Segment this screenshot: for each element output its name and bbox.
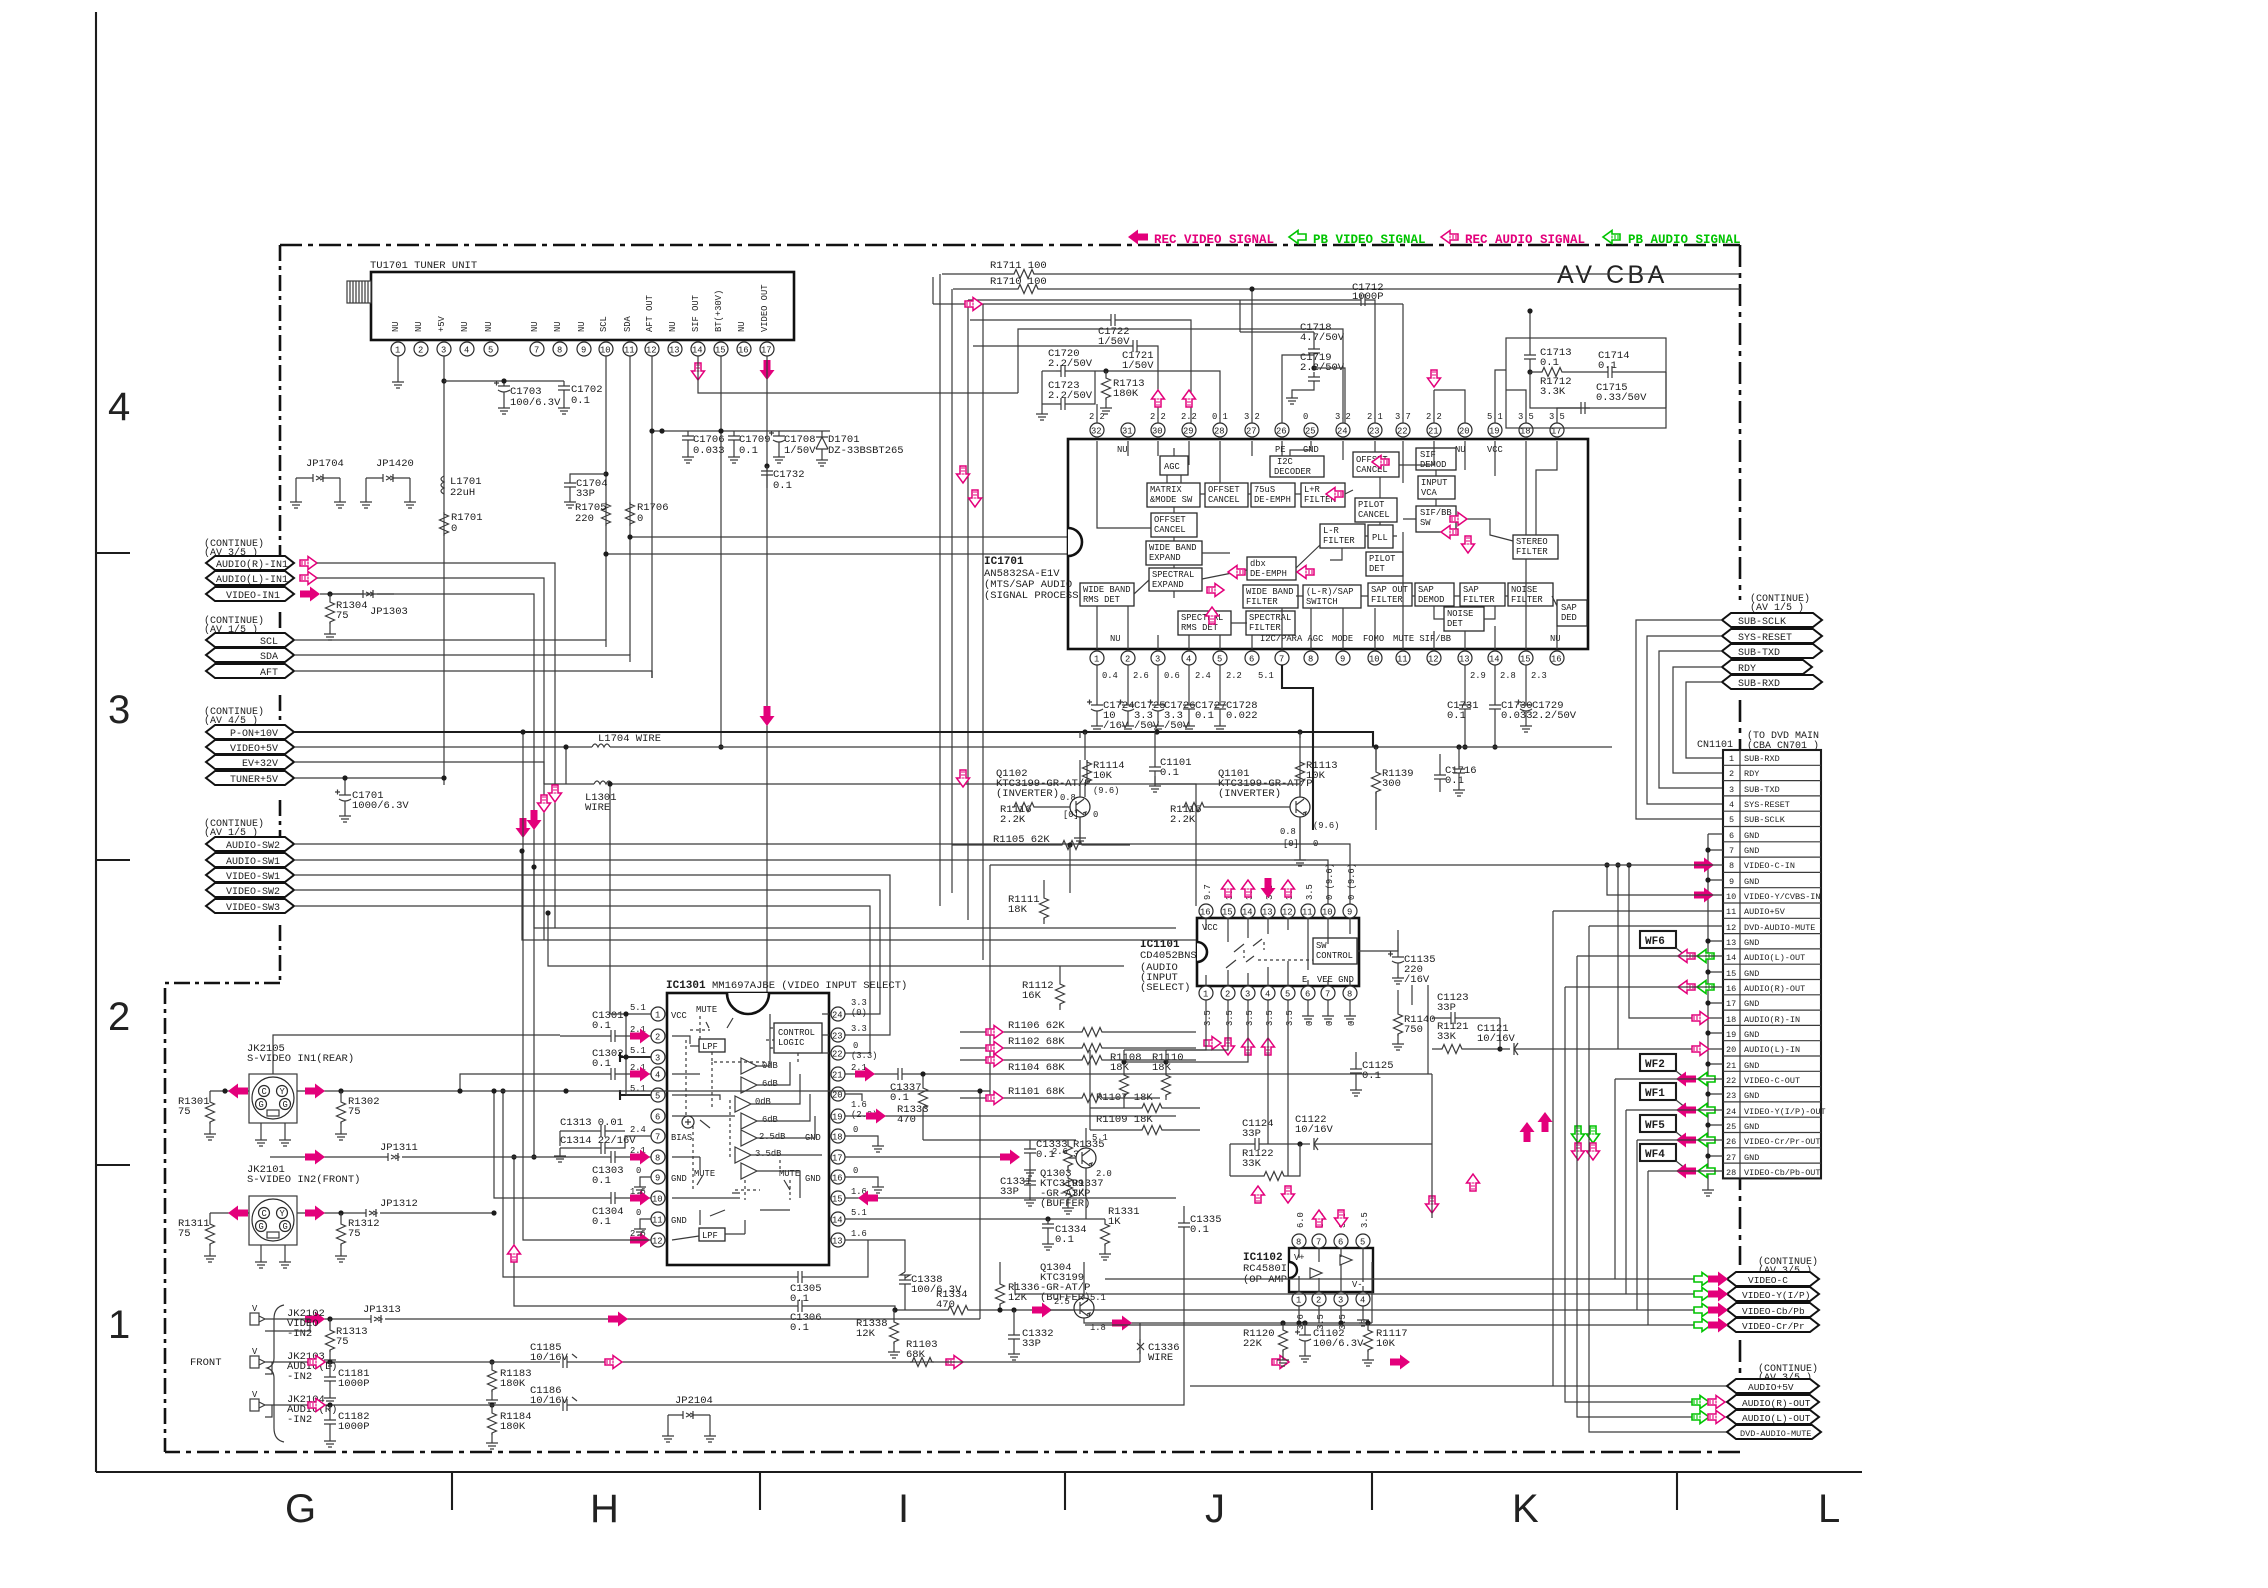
svg-text:28: 28 <box>1214 427 1225 437</box>
svg-text:SCL: SCL <box>599 316 609 332</box>
svg-text:AUDIO-SW2: AUDIO-SW2 <box>226 841 280 852</box>
svg-text:22: 22 <box>1397 427 1408 437</box>
wire row18 feed <box>1629 865 1723 1018</box>
capacitor C1701 <box>344 778 346 790</box>
svg-text:WIDE BAND: WIDE BAND <box>1149 543 1197 553</box>
wire row22 video-c-out <box>1105 1079 1727 1279</box>
arrows above IC1101 <box>1222 880 1235 897</box>
wire P-ON+10V <box>294 732 1373 747</box>
svg-text:2.9: 2.9 <box>1470 671 1486 681</box>
svg-text:9: 9 <box>655 1174 660 1184</box>
arrows row14 <box>1678 950 1695 963</box>
svg-text:GND: GND <box>1744 999 1759 1009</box>
svg-text:15: 15 <box>1222 908 1233 918</box>
svg-text:0.1: 0.1 <box>739 445 758 457</box>
svg-text:2.2K: 2.2K <box>1170 814 1196 826</box>
svg-text:16: 16 <box>1200 908 1211 918</box>
svg-text:8: 8 <box>1347 990 1352 1000</box>
svg-text:12K: 12K <box>856 1328 876 1340</box>
IC1101 top voltages rotated <box>1203 863 1357 900</box>
svg-text:21: 21 <box>1726 1061 1736 1071</box>
svg-text:100/6.3V: 100/6.3V <box>510 397 561 409</box>
IC1101 bottom pin gnds <box>1307 1000 1309 1012</box>
svg-text:3.5: 3.5 <box>1265 1010 1275 1026</box>
arrow jp1313 a <box>305 1312 325 1327</box>
svg-text:3: 3 <box>1729 785 1734 795</box>
svg-text:1: 1 <box>108 1303 130 1347</box>
svg-text:0.1: 0.1 <box>1362 1070 1381 1082</box>
svg-text:DZ-33BSBT265: DZ-33BSBT265 <box>828 445 904 457</box>
svg-text:G: G <box>285 1487 316 1531</box>
svg-text:K: K <box>1512 1487 1539 1531</box>
node pin3/C1703 <box>441 378 446 383</box>
svg-text:I: I <box>898 1487 909 1531</box>
svg-text:24: 24 <box>1337 427 1348 437</box>
svg-text:SUB-RXD: SUB-RXD <box>1744 754 1780 764</box>
svg-text:AUDIO+5V: AUDIO+5V <box>1748 1382 1794 1393</box>
svg-text:JP1704: JP1704 <box>306 458 344 470</box>
wire RDY to pin2 <box>1673 667 1723 773</box>
svg-text:VIDEO-SW1: VIDEO-SW1 <box>226 872 280 883</box>
svg-text:V: V <box>252 1304 258 1314</box>
block SIF BB SW <box>1416 506 1456 532</box>
wire c1185 line up <box>1371 1262 1373 1323</box>
svg-text:2: 2 <box>1225 990 1230 1000</box>
svg-text:1/50V: 1/50V <box>1122 360 1154 372</box>
svg-text:3.5dB: 3.5dB <box>755 1149 781 1159</box>
svg-text:1.6: 1.6 <box>851 1229 867 1239</box>
capacitor C1726 <box>1157 665 1159 700</box>
svg-text:SW: SW <box>1316 941 1327 951</box>
svg-text:1: 1 <box>1094 655 1099 665</box>
arrow row20 <box>1692 1043 1709 1056</box>
pin1 wire <box>610 784 651 1095</box>
svg-text:5: 5 <box>1217 655 1222 665</box>
IC1701 top pins <box>1090 423 1564 437</box>
arrow audio l in1 <box>300 572 317 585</box>
svg-text:33K: 33K <box>1437 1031 1457 1043</box>
svg-text:5: 5 <box>488 346 493 356</box>
capacitor C1727 <box>1188 665 1190 700</box>
wire row20 feed2 <box>1617 865 1619 1049</box>
wire jack1 left <box>210 1090 249 1092</box>
svg-text:OFFSET: OFFSET <box>1208 485 1240 495</box>
svg-text:JP1312: JP1312 <box>380 1198 418 1210</box>
wire SUB-RXD to pin1 <box>1686 682 1723 758</box>
svg-text:1: 1 <box>1203 990 1208 1000</box>
wire r1711 tail <box>933 277 1403 423</box>
capacitor C1724 <box>1096 665 1098 700</box>
svg-text:15: 15 <box>832 1195 843 1205</box>
IC1301 internal dashed wires <box>686 1016 798 1200</box>
capacitor C1332 <box>1013 1310 1015 1330</box>
svg-text:CANCEL: CANCEL <box>1208 495 1240 505</box>
svg-text:VIDEO OUT: VIDEO OUT <box>760 284 770 332</box>
svg-text:SPECTRAL: SPECTRAL <box>1152 570 1194 580</box>
svg-text:VIDEO-Cb/Pb: VIDEO-Cb/Pb <box>1742 1306 1805 1317</box>
svg-text:13: 13 <box>1262 908 1273 918</box>
IC1301 right pins <box>831 1007 845 1247</box>
svg-text:DET: DET <box>1369 564 1385 574</box>
legend rec audio arrow <box>1441 231 1458 244</box>
node AUDIO-SW1 <box>206 853 294 867</box>
svg-text:0: 0 <box>637 513 643 525</box>
svg-text:NU: NU <box>484 321 494 332</box>
svg-text:CD4052BNSA: CD4052BNSA <box>1140 950 1204 962</box>
svg-text:WIDE BAND: WIDE BAND <box>1246 587 1294 597</box>
svg-text:0.8: 0.8 <box>1060 793 1076 803</box>
svg-text:15: 15 <box>1726 969 1736 979</box>
capacitor C1304 <box>606 1192 620 1204</box>
pin19 wire <box>845 1115 1176 1117</box>
svg-text:GND: GND <box>1744 1153 1759 1163</box>
legend pb audio arrow <box>1603 231 1620 244</box>
svg-text:JP1311: JP1311 <box>380 1142 418 1154</box>
arrow VIDEO out <box>760 360 775 380</box>
svg-text:AUDIO+5V: AUDIO+5V <box>1744 907 1786 917</box>
svg-text:0.1: 0.1 <box>790 1322 809 1334</box>
node P-ON+10V <box>206 725 294 739</box>
mid bus arrows <box>516 818 531 838</box>
block LPF top <box>699 1039 725 1052</box>
svg-text:R1710 100: R1710 100 <box>990 276 1047 288</box>
svg-text:MATRIX: MATRIX <box>1150 485 1182 495</box>
svg-text:0.1: 0.1 <box>592 1058 611 1070</box>
svg-text:R1105 62K: R1105 62K <box>993 834 1050 846</box>
wire ic1101 pin1 feed <box>1124 1000 1206 1050</box>
arrow c1185 line c <box>1390 1355 1410 1370</box>
svg-text:4: 4 <box>1729 800 1734 810</box>
arrow bus mid1 <box>1520 1122 1535 1142</box>
svg-text:SUB-SCLK: SUB-SCLK <box>1738 617 1786 628</box>
svg-text:3.5: 3.5 <box>1305 884 1315 900</box>
svg-text:NU: NU <box>737 321 747 332</box>
arrows audio l out b <box>1692 1411 1709 1424</box>
svg-text:WIDE BAND: WIDE BAND <box>1083 585 1131 595</box>
svg-text:12: 12 <box>1726 923 1736 933</box>
svg-text:GND: GND <box>1744 1091 1759 1101</box>
frame tick bottom J/K <box>1371 1472 1373 1510</box>
svg-text:11: 11 <box>1397 655 1408 665</box>
arrow pin30 down <box>1183 390 1196 407</box>
IC1101 bottom pins <box>1199 986 1357 1000</box>
node AFT <box>206 664 294 678</box>
svg-text:9.7: 9.7 <box>1203 884 1213 900</box>
svg-text:5.1: 5.1 <box>1258 671 1274 681</box>
svg-text:SCL: SCL <box>260 637 278 648</box>
node RDY <box>1722 660 1812 674</box>
wire jack2 left <box>210 1212 249 1214</box>
svg-text:19: 19 <box>1726 1030 1736 1040</box>
svg-text:3.5: 3.5 <box>1225 1010 1235 1026</box>
svg-text:33K: 33K <box>1242 1158 1262 1170</box>
svg-text:NU: NU <box>668 321 678 332</box>
WF6 box <box>1640 931 1676 948</box>
wire pin6 I2C drop <box>1427 985 1429 1074</box>
svg-text:MUTE: MUTE <box>696 1005 717 1015</box>
svg-text:L+R: L+R <box>1304 485 1321 495</box>
svg-text:FILTER: FILTER <box>1371 595 1403 605</box>
svg-text:33P: 33P <box>1242 1128 1261 1140</box>
capacitor C1331 <box>1024 1176 1036 1190</box>
svg-text:75: 75 <box>348 1228 361 1240</box>
svg-text:30: 30 <box>1152 427 1163 437</box>
svg-text:0.1: 0.1 <box>773 480 792 492</box>
capacitor C1303 <box>606 1151 620 1163</box>
pin9 gnd <box>640 1177 651 1183</box>
capacitor C1709 <box>728 431 740 445</box>
arrow pin4 <box>630 1067 650 1082</box>
border bottom <box>165 1451 1740 1454</box>
svg-text:LOGIC: LOGIC <box>778 1038 804 1048</box>
svg-text:2.3: 2.3 <box>1531 671 1547 681</box>
svg-text:18K: 18K <box>1008 904 1028 916</box>
svg-text:SYS-RESET: SYS-RESET <box>1738 633 1792 644</box>
svg-text:SAP: SAP <box>1561 603 1577 613</box>
wire VIDEO-IN1 <box>320 594 534 1157</box>
svg-text:2: 2 <box>1125 655 1130 665</box>
svg-text:2: 2 <box>1316 1296 1321 1306</box>
diode D1701 <box>816 431 828 456</box>
wire pin27 up <box>1282 355 1314 423</box>
svg-text:SPECTRAL: SPECTRAL <box>1249 613 1291 623</box>
svg-text:AUDIO(R)-IN: AUDIO(R)-IN <box>1744 1015 1800 1025</box>
svg-text:AUDIO(R)-OUT: AUDIO(R)-OUT <box>1742 1398 1811 1409</box>
frame tick left 4/3 <box>96 552 130 554</box>
IC1301 internal solid wires <box>672 1014 829 1240</box>
svg-text:31: 31 <box>1122 427 1133 437</box>
block NOISE DET <box>1444 607 1484 631</box>
svg-text:0: 0 <box>451 523 457 535</box>
svg-text:23: 23 <box>1726 1091 1736 1101</box>
capacitor C1725 <box>1127 665 1129 700</box>
svg-text:AUDIO(L)-OUT: AUDIO(L)-OUT <box>1742 1413 1811 1424</box>
arrows row28 <box>1676 1164 1696 1179</box>
svg-text:TU1701 TUNER UNIT: TU1701 TUNER UNIT <box>370 260 477 272</box>
pin20 wire <box>845 1094 862 1101</box>
svg-text:10: 10 <box>1322 908 1333 918</box>
resistor R1337 <box>1064 1176 1073 1200</box>
svg-text:0: 0 <box>1093 810 1098 820</box>
svg-text:6: 6 <box>1338 1238 1343 1248</box>
wire VIDEO-SW3 <box>294 906 870 1053</box>
svg-text:RMS DET: RMS DET <box>1083 595 1120 605</box>
arrow pin10 <box>630 1191 650 1206</box>
svg-text:33P: 33P <box>576 488 595 500</box>
node VIDEO-SW1 <box>206 868 294 882</box>
svg-text:14: 14 <box>1726 953 1736 963</box>
wire row26 video-cr-out <box>1050 1140 1727 1310</box>
svg-text:28: 28 <box>1726 1168 1736 1178</box>
transistor Q1303 <box>1076 1148 1096 1168</box>
svg-text:3: 3 <box>1245 990 1250 1000</box>
svg-text:RDY: RDY <box>1744 769 1759 779</box>
arrow mid q <box>957 770 970 787</box>
wire pin15 BT down <box>720 356 722 747</box>
svg-text:14: 14 <box>1489 655 1500 665</box>
border left upper <box>279 245 282 983</box>
svg-text:AUDIO(L)-IN1: AUDIO(L)-IN1 <box>216 574 288 586</box>
arrow jack1 right <box>305 1084 325 1099</box>
svg-text:FRONT: FRONT <box>190 1357 222 1369</box>
svg-text:GND: GND <box>671 1174 687 1184</box>
node AUDIO(L)-IN1 <box>206 571 294 585</box>
svg-text:GND: GND <box>1744 1122 1759 1132</box>
node VIDEO-Y(I/P) <box>1727 1287 1819 1301</box>
svg-text:2.5: 2.5 <box>1054 1297 1070 1307</box>
svg-text:DE-EMPH: DE-EMPH <box>1250 569 1287 579</box>
svg-text:FOMO: FOMO <box>1363 634 1384 644</box>
svg-text:WIRE: WIRE <box>585 802 610 814</box>
arrow c1185 line <box>605 1356 622 1369</box>
jack JK2101 <box>249 1196 297 1268</box>
svg-text:GND: GND <box>1744 831 1759 841</box>
svg-text:13: 13 <box>832 1237 843 1247</box>
svg-text:5.1: 5.1 <box>630 1046 646 1056</box>
wire top pin 32 <box>1096 404 1098 423</box>
wire row14 audio L out <box>1577 956 1727 1417</box>
svg-text:GND: GND <box>805 1174 821 1184</box>
svg-text:26: 26 <box>1276 427 1287 437</box>
wire C1718 top <box>1240 300 1345 423</box>
svg-text:17: 17 <box>1726 999 1736 1009</box>
svg-text:9: 9 <box>581 346 586 356</box>
block WIDE BAND RMS DET <box>1080 583 1134 606</box>
wire pin12 feed <box>523 732 651 1240</box>
inductor L1701 <box>441 476 444 494</box>
svg-text:2.5dB: 2.5dB <box>759 1132 785 1142</box>
svg-text:0dB: 0dB <box>755 1097 771 1107</box>
svg-text:R1102 68K: R1102 68K <box>1008 1036 1065 1048</box>
block OFFSET CANCEL a <box>1353 452 1399 477</box>
IC1301 amp triangles <box>735 1058 757 1179</box>
svg-text:Y: Y <box>280 1087 286 1097</box>
svg-text:2.2: 2.2 <box>1226 671 1242 681</box>
svg-text:-IN2: -IN2 <box>287 1371 312 1383</box>
svg-text:2.2K: 2.2K <box>1000 814 1026 826</box>
node TUNER+5V <box>206 771 294 785</box>
svg-text:TUNER+5V: TUNER+5V <box>230 775 278 786</box>
wire r1105 junction <box>1067 842 1072 847</box>
svg-text:(SELECT): (SELECT) <box>1140 982 1190 994</box>
svg-text:20: 20 <box>1459 427 1470 437</box>
block CONTROL LOGIC <box>774 1023 822 1053</box>
svg-text:DVD-AUDIO-MUTE: DVD-AUDIO-MUTE <box>1740 1429 1811 1439</box>
IC1102 box <box>1289 1248 1373 1292</box>
node SCL <box>206 633 294 647</box>
svg-text:AUDIO(R)-OUT: AUDIO(R)-OUT <box>1744 984 1805 994</box>
transistor Q1304 <box>1074 1298 1094 1318</box>
svg-text:VIDEO-C-OUT: VIDEO-C-OUT <box>1744 1076 1800 1086</box>
svg-text:8: 8 <box>1296 1238 1301 1248</box>
svg-text:4: 4 <box>655 1071 660 1081</box>
arrows r110x <box>986 1026 1003 1039</box>
node SDA <box>206 648 294 662</box>
svg-text:EXPAND: EXPAND <box>1149 553 1181 563</box>
svg-text:SUB-TXD: SUB-TXD <box>1744 785 1780 795</box>
block SAP DED <box>1557 600 1587 626</box>
svg-text:10: 10 <box>600 346 611 356</box>
frame tick left 2/1 <box>96 1164 130 1166</box>
svg-text:CANCEL: CANCEL <box>1356 465 1388 475</box>
arrows video-cr <box>1694 1319 1711 1332</box>
resistor R1713 <box>1102 376 1111 400</box>
svg-text:16: 16 <box>738 346 749 356</box>
svg-text:3.5: 3.5 <box>1245 1010 1255 1026</box>
svg-text:(0): (0) <box>851 1008 867 1018</box>
capacitor C1704 <box>564 478 576 492</box>
svg-text:180K: 180K <box>500 1421 526 1433</box>
block WIDE BAND FILTER <box>1243 585 1298 608</box>
block AGC <box>1160 456 1188 475</box>
node VIDEO+5V <box>206 740 294 754</box>
svg-text:AUDIO(L)-OUT: AUDIO(L)-OUT <box>1744 953 1805 963</box>
node SYS-RESET <box>1722 629 1822 643</box>
svg-text:MUTE SIF/BB: MUTE SIF/BB <box>1393 634 1451 644</box>
svg-text:CANCEL: CANCEL <box>1358 510 1390 520</box>
node SUB-SCLK <box>1722 613 1822 627</box>
svg-text:SAP: SAP <box>1418 585 1434 595</box>
wire jack2 right <box>297 1091 566 1217</box>
node VIDEO-Cb/Pb <box>1727 1303 1819 1317</box>
svg-text:1.6: 1.6 <box>851 1100 867 1110</box>
frame tick bottom K/L <box>1676 1472 1678 1510</box>
CN1101 gnd bus <box>1707 834 1709 1186</box>
svg-text:2.0: 2.0 <box>1096 1169 1112 1179</box>
svg-text:GND: GND <box>1744 877 1759 887</box>
svg-text:10K: 10K <box>1093 770 1113 782</box>
group brace <box>267 1305 284 1442</box>
svg-text:0.1: 0.1 <box>1540 357 1559 369</box>
svg-text:V: V <box>252 1347 258 1357</box>
svg-text:21: 21 <box>832 1071 843 1081</box>
svg-text:0.022: 0.022 <box>1226 710 1258 722</box>
IC1301 left pins <box>651 1007 665 1247</box>
svg-text:V: V <box>252 1390 258 1400</box>
svg-text:SDA: SDA <box>260 652 278 663</box>
wire row10 feed <box>1607 865 1723 895</box>
IC1102 top pins <box>1292 1234 1370 1248</box>
svg-text:13: 13 <box>669 346 680 356</box>
svg-text:WF1: WF1 <box>1645 1088 1665 1100</box>
svg-text:FILTER: FILTER <box>1323 536 1355 546</box>
svg-text:4: 4 <box>1186 655 1191 665</box>
jack JK2105 <box>249 1074 297 1146</box>
arrows audio r out b <box>1692 1396 1709 1409</box>
arrow sif right <box>965 298 982 311</box>
svg-text:0.033: 0.033 <box>693 445 725 457</box>
svg-text:VIDEO-Cb/Pb-OUT: VIDEO-Cb/Pb-OUT <box>1744 1168 1821 1178</box>
svg-text:0.1: 0.1 <box>1190 1224 1209 1236</box>
svg-text:19: 19 <box>1489 427 1500 437</box>
svg-text:GND: GND <box>1744 938 1759 948</box>
svg-text:VIDEO+5V: VIDEO+5V <box>230 744 278 755</box>
wire VIDEO+5V <box>294 746 1612 748</box>
svg-text:LPF: LPF <box>702 1231 718 1241</box>
svg-text:VIDEO-C-IN: VIDEO-C-IN <box>1744 861 1795 871</box>
svg-text:0.1: 0.1 <box>592 1175 611 1187</box>
svg-text:6dB: 6dB <box>762 1115 778 1125</box>
svg-text:33P: 33P <box>1000 1186 1019 1198</box>
wire R1114 top <box>1084 732 1086 797</box>
wire SCL <box>294 640 606 647</box>
svg-text:100/6.3V: 100/6.3V <box>1313 1338 1364 1350</box>
wire pin19/18 <box>1495 370 1526 423</box>
block I2C DECODER <box>1270 456 1324 477</box>
svg-text:NU: NU <box>1110 634 1121 644</box>
svg-text:2.4: 2.4 <box>630 1125 646 1135</box>
wire AUDIO-SW2 <box>294 844 1350 905</box>
